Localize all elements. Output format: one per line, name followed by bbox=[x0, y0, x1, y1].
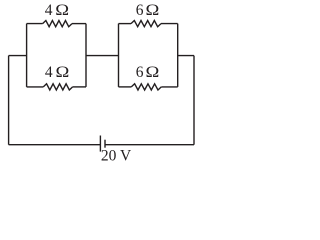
wire: top-right branch lead left bbox=[119, 23, 132, 25]
svg-text:20 V: 20 V bbox=[101, 148, 132, 165]
label: 4 Ω (bottom left) bbox=[45, 63, 69, 81]
resistor R1 4Ω (top left zigzag) bbox=[43, 21, 72, 27]
battery V1 short plate bbox=[104, 140, 106, 148]
wire: right mid connector (right box to node C) bbox=[178, 55, 194, 57]
svg-text:Ω: Ω bbox=[56, 63, 70, 80]
wire: top-right branch lead right bbox=[161, 23, 178, 25]
battery V1 long plate bbox=[99, 136, 101, 152]
svg-text:Ω: Ω bbox=[55, 2, 69, 19]
svg-text:Ω: Ω bbox=[146, 2, 160, 19]
wire: bottom right of battery bbox=[105, 144, 194, 146]
wire: bottom-right branch lead right bbox=[161, 86, 177, 88]
wire: top-left branch lead left bbox=[27, 23, 43, 25]
label: 6 Ω (top right) bbox=[136, 2, 160, 20]
label: 6 Ω (bottom right) bbox=[136, 63, 160, 81]
resistor R4 6Ω (bottom right zigzag) bbox=[131, 84, 161, 90]
resistor R2 4Ω (bottom left zigzag) bbox=[43, 84, 72, 90]
label: 4 Ω (top left) bbox=[45, 2, 69, 20]
svg-text:Ω: Ω bbox=[146, 63, 160, 80]
wire: bottom left of battery bbox=[9, 144, 101, 146]
wire: right box left bus (vertical) bbox=[118, 24, 120, 87]
wire: right box right bus (vertical) bbox=[177, 24, 179, 87]
resistor R3 6Ω (top right zigzag) bbox=[131, 21, 161, 27]
svg-text:6: 6 bbox=[136, 64, 144, 81]
wire: left box left bus (vertical) bbox=[26, 24, 28, 87]
wire: outer left vertical bbox=[8, 56, 10, 145]
wire: left mid connector (node A to left box) bbox=[9, 55, 27, 57]
svg-text:6: 6 bbox=[136, 2, 144, 19]
wire: top-left branch lead right bbox=[72, 23, 86, 25]
wire: bottom-left branch lead left bbox=[27, 86, 44, 88]
wire: bottom-right branch lead left bbox=[119, 86, 132, 88]
wire: bottom-left branch lead right bbox=[73, 86, 86, 88]
svg-text:4: 4 bbox=[45, 2, 53, 19]
wire: left box right bus (vertical) bbox=[85, 24, 87, 87]
wire: middle connector between boxes (node B) bbox=[86, 55, 119, 57]
wire: outer right vertical bbox=[193, 56, 195, 145]
svg-text:4: 4 bbox=[45, 64, 53, 81]
